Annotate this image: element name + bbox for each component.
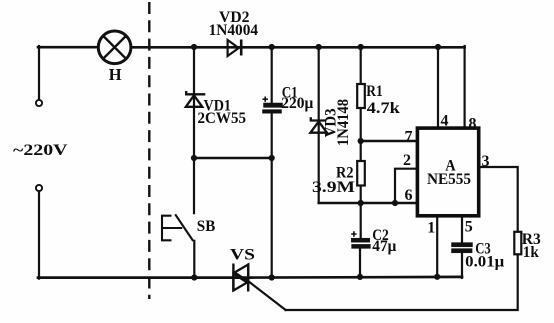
wire VD1 branch vertical xyxy=(193,47,195,213)
svg-text:47μ: 47μ xyxy=(372,238,396,255)
svg-text:6: 6 xyxy=(405,187,413,204)
wire C2 branch vertical lower xyxy=(359,248,361,277)
svg-text:1k: 1k xyxy=(523,244,539,261)
node bottom AC terminal xyxy=(36,185,42,191)
wire VD3 branch vertical xyxy=(318,47,320,203)
wire pin7 horizontal xyxy=(361,140,417,143)
svg-text:2CW55: 2CW55 xyxy=(198,110,247,127)
wire pin1 vertical xyxy=(436,217,438,277)
svg-text:7: 7 xyxy=(405,129,413,146)
triac VS xyxy=(233,264,248,292)
svg-text:5: 5 xyxy=(465,218,473,235)
node top bus / R1 xyxy=(358,44,364,50)
svg-text:R1: R1 xyxy=(366,83,383,100)
wire pin3 horizontal then vertical to R3 xyxy=(481,167,518,232)
wire C1 branch vertical upper xyxy=(271,47,273,104)
wire top-left horizontal from AC terminal to lamp xyxy=(38,46,98,49)
wire pin8 vertical drop from top bus xyxy=(464,46,466,128)
IC U1 NE555 box xyxy=(417,128,478,216)
wire C1 branch vertical lower xyxy=(271,113,273,278)
wire bottom horizontal main xyxy=(38,276,462,279)
node C1 link right xyxy=(269,155,275,161)
svg-text:3.9M: 3.9M xyxy=(312,179,355,196)
svg-text:VS: VS xyxy=(230,247,255,264)
wire C3 bottom to ground wire xyxy=(461,253,463,278)
wire left vertical from bottom AC terminal xyxy=(38,192,40,279)
svg-text:NE555: NE555 xyxy=(427,171,471,188)
node VD1 link left xyxy=(191,155,197,161)
svg-text:3: 3 xyxy=(482,153,490,170)
svg-text:8: 8 xyxy=(469,116,477,133)
node C1 bottom xyxy=(269,274,275,280)
node R1 bottom pin7 xyxy=(358,138,364,144)
capacitor C3 xyxy=(452,243,473,253)
resistor R3 xyxy=(514,232,521,255)
resistor R2 xyxy=(357,161,365,186)
svg-text:~220V: ~220V xyxy=(13,142,68,159)
svg-text:220μ: 220μ xyxy=(281,95,313,112)
svg-text:4: 4 xyxy=(441,113,449,130)
svg-text:H: H xyxy=(109,65,122,84)
node pin1 bottom xyxy=(434,274,440,280)
svg-text:0.01μ: 0.01μ xyxy=(465,254,504,271)
svg-text:SB: SB xyxy=(197,218,216,235)
switch SB pushbutton xyxy=(162,214,193,241)
zener diode VD1 xyxy=(186,91,206,107)
wire pin4 vertical drop from top bus xyxy=(437,47,439,128)
wire pin2 horizontal and vertical xyxy=(395,169,417,203)
svg-text:4.7k: 4.7k xyxy=(367,100,400,117)
wire triac gate diagonal xyxy=(249,282,286,310)
dashed separator line xyxy=(148,2,150,299)
resistor R1 xyxy=(357,84,365,108)
wire pin5 vertical to C3 xyxy=(461,217,463,243)
node top bus / VD3 xyxy=(316,44,322,50)
svg-text:1N4148: 1N4148 xyxy=(335,99,352,146)
diode VD3 xyxy=(310,117,327,132)
svg-text:1N4004: 1N4004 xyxy=(209,22,259,39)
node R2 bottom pin6 xyxy=(358,200,364,206)
svg-text:2: 2 xyxy=(403,152,411,169)
wire R1 R2 C2 branch vertical upper xyxy=(360,47,362,239)
diode VD2 xyxy=(228,40,242,57)
junction node dots xyxy=(191,44,441,281)
node SB bottom xyxy=(191,274,197,280)
wire horizontal link VD1 to C1 xyxy=(194,157,272,160)
wire pin6 horizontal xyxy=(319,202,417,205)
wire SB lower lead xyxy=(193,241,195,279)
svg-text:1: 1 xyxy=(427,219,435,236)
lamp H xyxy=(98,31,131,64)
wire left vertical to top AC terminal xyxy=(38,46,40,100)
node C2 bottom xyxy=(357,274,363,280)
node top AC terminal xyxy=(36,100,42,106)
node top bus / C1 xyxy=(269,44,275,50)
node top bus / pin4 xyxy=(435,44,441,50)
wire R3 bottom vertical then bottom-right return xyxy=(286,254,518,310)
node pin2 pin6 join xyxy=(392,200,398,206)
capacitor C1 xyxy=(263,97,283,114)
wire top horizontal bus xyxy=(131,46,465,49)
node top bus / VD1 xyxy=(191,44,197,50)
capacitor C2 xyxy=(351,231,370,248)
